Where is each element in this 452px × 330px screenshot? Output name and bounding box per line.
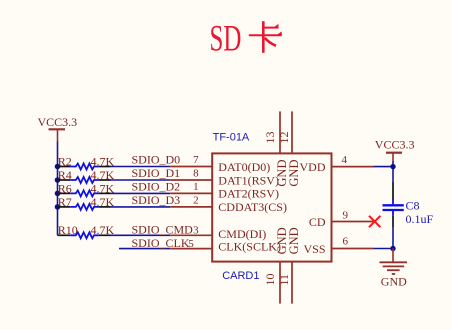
no-connect X on pin 9 (CD) bbox=[369, 216, 380, 227]
svg-text:1: 1 bbox=[193, 181, 199, 193]
wire cap to VSS bbox=[392, 227, 394, 249]
svg-text:R6: R6 bbox=[58, 181, 72, 195]
wire net SDIO_CLK bbox=[119, 248, 170, 250]
junction node VSS/GND bbox=[390, 246, 395, 251]
capacitor C8 0.1uF bbox=[383, 182, 434, 227]
pin 7 stub bbox=[170, 166, 212, 168]
svg-text:DAT0(D0): DAT0(D0) bbox=[218, 160, 270, 174]
svg-text:GND: GND bbox=[287, 227, 301, 254]
svg-text:TF-01A: TF-01A bbox=[213, 132, 250, 144]
svg-text:VCC3.3: VCC3.3 bbox=[375, 137, 415, 151]
pin 10 stub bbox=[279, 262, 281, 304]
resistor R2 4.7K bbox=[58, 155, 115, 170]
svg-text:VSS: VSS bbox=[303, 242, 325, 256]
wire net SDIO_D1 bbox=[111, 179, 171, 181]
power port VCC3.3 (left) bbox=[38, 115, 78, 142]
svg-text:9: 9 bbox=[343, 210, 349, 222]
svg-text:GND: GND bbox=[381, 275, 407, 289]
junction node row 3 bbox=[55, 191, 61, 197]
wire net SDIO_D3 bbox=[111, 206, 171, 208]
svg-text:2: 2 bbox=[193, 194, 199, 206]
svg-text:DAT1(RSV): DAT1(RSV) bbox=[218, 173, 279, 187]
svg-text:CDDAT3(CS): CDDAT3(CS) bbox=[218, 200, 287, 214]
wire VCC vertical upper bbox=[392, 161, 394, 182]
junction node row 1 bbox=[55, 164, 61, 170]
svg-text:CLK(SCLK): CLK(SCLK) bbox=[218, 240, 281, 254]
wire net SDIO_D2 bbox=[111, 192, 171, 194]
resistor R7 4.7K bbox=[58, 195, 115, 210]
junction node row 4 bbox=[55, 204, 61, 210]
pin 2 stub bbox=[170, 206, 212, 208]
svg-text:SDIO_CMD: SDIO_CMD bbox=[132, 223, 194, 237]
svg-text:R2: R2 bbox=[58, 155, 72, 169]
svg-text:SDIO_D3: SDIO_D3 bbox=[132, 193, 181, 207]
svg-text:0.1uF: 0.1uF bbox=[406, 212, 434, 226]
wire net SDIO_D0 bbox=[111, 166, 171, 168]
pin 12 stub bbox=[291, 111, 293, 153]
svg-text:VDD: VDD bbox=[300, 160, 326, 174]
pin 3 stub bbox=[170, 234, 212, 236]
svg-text:12: 12 bbox=[277, 132, 291, 144]
pin 6 VSS stub bbox=[332, 248, 374, 250]
svg-text:8: 8 bbox=[193, 167, 199, 179]
svg-text:SDIO_D0: SDIO_D0 bbox=[132, 153, 181, 167]
connector CARD1 body (TF-01A) bbox=[212, 153, 331, 261]
svg-text:SD: SD bbox=[210, 18, 242, 59]
svg-text:6: 6 bbox=[343, 236, 349, 248]
resistor R6 4.7K bbox=[58, 181, 115, 196]
svg-text:DAT2(RSV): DAT2(RSV) bbox=[218, 187, 279, 201]
wire VDD to VCC bbox=[374, 166, 394, 168]
ground GND symbol bbox=[380, 249, 408, 289]
pin 13 stub bbox=[279, 111, 281, 153]
svg-text:7: 7 bbox=[193, 154, 199, 166]
svg-text:GND: GND bbox=[287, 160, 301, 187]
junction node row 2 bbox=[55, 177, 61, 183]
title text SD卡 (SD card) bbox=[210, 18, 281, 59]
svg-text:R4: R4 bbox=[58, 168, 72, 182]
pin 9 CD stub bbox=[332, 221, 374, 223]
junction node VDD/VCC bbox=[390, 164, 395, 169]
svg-text:CD: CD bbox=[309, 215, 326, 229]
wire net SDIO_CMD bbox=[111, 234, 171, 236]
svg-text:SDIO_D1: SDIO_D1 bbox=[132, 166, 181, 180]
svg-text:C8: C8 bbox=[406, 199, 420, 213]
svg-text:R10: R10 bbox=[58, 223, 78, 237]
wire left vertical bus bbox=[57, 142, 59, 236]
power port VCC3.3 (right) bbox=[375, 137, 415, 161]
svg-text:SDIO_D2: SDIO_D2 bbox=[132, 180, 181, 194]
pin 4 VDD stub bbox=[332, 166, 374, 168]
resistor R4 4.7K bbox=[58, 168, 115, 183]
pin 5 stub bbox=[170, 248, 212, 250]
svg-text:R7: R7 bbox=[58, 195, 72, 209]
svg-text:11: 11 bbox=[277, 274, 291, 286]
pin 11 stub bbox=[291, 262, 293, 304]
svg-text:4: 4 bbox=[342, 154, 348, 166]
resistor R10 4.7K bbox=[58, 223, 115, 238]
wire VSS to GND bbox=[374, 248, 394, 250]
svg-text:10: 10 bbox=[263, 274, 277, 286]
svg-text:VCC3.3: VCC3.3 bbox=[38, 115, 78, 129]
pin 1 stub bbox=[170, 192, 212, 194]
pin 8 stub bbox=[170, 179, 212, 181]
svg-text:13: 13 bbox=[263, 132, 277, 144]
svg-text:CARD1: CARD1 bbox=[222, 270, 259, 282]
